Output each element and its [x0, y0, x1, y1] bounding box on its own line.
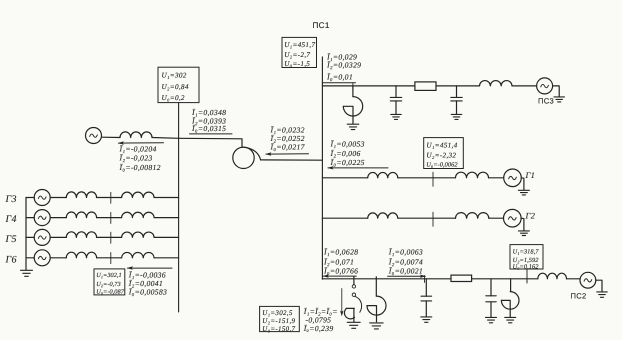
label I0=0,0315 — [191, 124, 226, 133]
svg-text:Ī₁=0,0628: Ī₁=0,0628 — [323, 248, 358, 257]
label I2=0,0041 — [128, 279, 163, 288]
label IA=0,239 — [303, 324, 334, 333]
reactor coil L12 — [456, 172, 489, 178]
wire PS3 to ground — [553, 86, 560, 97]
reactor coil L6a — [66, 252, 96, 258]
label G1 — [525, 170, 536, 180]
svg-text:ПС2: ПС2 — [571, 291, 587, 300]
label I1=I2=I0= — [303, 307, 338, 316]
svg-text:U₂=-2,7: U₂=-2,7 — [284, 51, 310, 59]
box U=302,5 voltage table — [260, 306, 300, 331]
text U0=0,2 — [162, 94, 185, 102]
junction tick on G1 feeder — [432, 172, 434, 186]
generator Г6 — [34, 250, 50, 266]
generator Г4 — [34, 210, 50, 226]
label I1=0,029 — [326, 52, 357, 61]
label I0=0,0225 — [330, 158, 365, 167]
text U1=318,7 — [513, 249, 540, 256]
reactor coil L4a — [66, 212, 96, 218]
generator G2 — [504, 209, 522, 227]
svg-text:U₀=0,162: U₀=0,162 — [513, 263, 540, 270]
reactor coil L11 — [368, 172, 398, 177]
wire Г5 feeder — [26, 236, 179, 238]
junction tick on Г5 feeder — [110, 232, 112, 243]
resistor R31 on PS3 feeder — [415, 82, 436, 91]
svg-text:U₁=302: U₁=302 — [162, 72, 187, 80]
wire G0 to left bus and to transformer — [102, 137, 243, 147]
capacitor C31 to ground — [390, 86, 401, 114]
reactor RA below switch — [344, 308, 354, 321]
reactor coil L31 on PS3 feeder — [480, 81, 512, 86]
text U0=-1,5 — [284, 60, 310, 68]
text U1=451,4 — [426, 141, 457, 149]
text U1=451,7 — [284, 41, 315, 49]
box U=318,7 voltage table — [510, 245, 543, 269]
arc-suppression reactor RC — [501, 279, 519, 317]
reactor coil L3b — [122, 192, 154, 197]
svg-text:Г3: Г3 — [5, 194, 17, 205]
svg-text:Ī₀=0,0766: Ī₀=0,0766 — [323, 266, 358, 275]
ground of G1 — [518, 190, 529, 195]
label I0=0,01 — [326, 72, 353, 81]
svg-text:Г6: Г6 — [5, 254, 17, 265]
svg-text:Ī₁=0,0053: Ī₁=0,0053 — [330, 140, 365, 149]
main bus PS1 (node) — [321, 57, 323, 279]
svg-text:Ī₂=-0,023: Ī₂=-0,023 — [119, 154, 153, 163]
junction tick on G2 feeder — [432, 212, 434, 226]
label Г6 — [5, 254, 17, 265]
svg-text:U₁=318,7: U₁=318,7 — [513, 249, 540, 256]
generator Г5 — [34, 229, 50, 245]
wire T1 to main bus — [261, 159, 323, 161]
svg-text:Ī₂=0,006: Ī₂=0,006 — [330, 149, 361, 158]
svg-text:U₁=451,7: U₁=451,7 — [284, 41, 315, 49]
svg-text:Īₐ=0,239: Īₐ=0,239 — [303, 324, 334, 333]
svg-text:Ī₂=0,0041: Ī₂=0,0041 — [128, 279, 163, 288]
label I2=0,0252 — [270, 134, 305, 143]
system source PS2 — [580, 272, 596, 288]
label Г4 — [5, 214, 17, 225]
junction tick on Г4 feeder — [110, 212, 112, 223]
svg-text:U₀=0,2: U₀=0,2 — [162, 94, 185, 102]
transformer T1 — [233, 147, 261, 168]
svg-text:U₀=-0,087: U₀=-0,087 — [96, 289, 125, 296]
text U0=-0,087 — [96, 289, 125, 296]
ground of PS3 reactor — [347, 124, 359, 129]
arrow under I0=0,01 — [323, 82, 356, 84]
label Г5 — [5, 234, 17, 245]
ground of C32 — [451, 114, 462, 119]
svg-text:U₀=-0,0062: U₀=-0,0062 — [426, 162, 458, 169]
wire PS2 feeder — [322, 278, 580, 280]
ground of RC — [505, 317, 516, 322]
label I2=0,0329 — [326, 61, 361, 70]
label I0=-0,00812 — [119, 163, 161, 172]
svg-text:Г5: Г5 — [5, 234, 17, 245]
label I2=0,006 — [330, 149, 361, 158]
text U2=-2,32 — [426, 152, 456, 160]
disconnector switch S1 (open) — [352, 277, 361, 312]
arrow above I1=-0,0036 — [127, 266, 172, 269]
svg-text:Ī₀=0,01: Ī₀=0,01 — [326, 72, 353, 81]
arc-suppression reactor RB — [367, 277, 386, 322]
svg-text:U₁=302,5: U₁=302,5 — [262, 309, 293, 317]
label I1=0,0053 — [330, 140, 365, 149]
wire Г6 feeder — [26, 257, 179, 259]
label I1=0,0063 — [388, 248, 423, 257]
svg-text:Ī₀=0,0315: Ī₀=0,0315 — [191, 124, 226, 133]
reactor coil L21 on PS2 feeder — [538, 273, 567, 279]
svg-text:Ī₁=0,0063: Ī₁=0,0063 — [388, 248, 423, 257]
label Г3 — [5, 194, 17, 205]
reactor coil L14 — [456, 213, 489, 219]
svg-text:U₂=-2,32: U₂=-2,32 — [426, 152, 456, 160]
label I1=0,0232 — [270, 126, 305, 135]
label PS1 — [313, 21, 330, 30]
text U2=-0,73 — [96, 281, 121, 288]
svg-text:Ī₂=0,071: Ī₂=0,071 — [323, 257, 354, 266]
ground of RB — [370, 323, 384, 329]
system source PS3 — [537, 78, 553, 94]
text U0=0,162 — [513, 263, 540, 270]
label I0=0,0217 — [270, 142, 306, 151]
label PS3 — [538, 96, 554, 105]
svg-text:Ī₀=-0,00812: Ī₀=-0,00812 — [119, 163, 161, 172]
arc-suppression reactor on PS3 feeder — [343, 86, 362, 124]
left bus (node) — [178, 103, 180, 312]
wire Г3 feeder — [26, 197, 179, 199]
junction tick on Г3 feeder — [110, 192, 112, 203]
capacitor C21 to ground — [421, 279, 432, 317]
text U0=-150,7 — [262, 325, 295, 333]
svg-text:U₁=302,1: U₁=302,1 — [96, 272, 122, 279]
current arrow on G0 feeder — [118, 141, 164, 144]
junction tick on PS3 feeder — [352, 83, 354, 90]
ground of G3-G6 neutral — [21, 270, 33, 276]
text U2=1,592 — [513, 257, 540, 264]
fault location arrow — [340, 289, 343, 317]
capacitor C32 to ground — [451, 86, 462, 114]
ground of G2 — [518, 231, 529, 236]
ground of RA — [347, 322, 360, 328]
text U1=302,5 — [262, 309, 293, 317]
current arrow on T1 output — [265, 152, 308, 155]
common neutral wire of G3-G6 — [25, 198, 27, 270]
label I2=0,0074 — [388, 257, 423, 266]
arrow under I0=0,0315 — [190, 133, 233, 135]
svg-text:Ī₀=0,0021: Ī₀=0,0021 — [388, 266, 423, 275]
generator G0 (unlabeled source, left) — [86, 128, 102, 144]
junction tick at C21 — [424, 276, 426, 283]
label I1=0,0348 — [191, 108, 226, 117]
svg-text:ПС1: ПС1 — [313, 21, 330, 30]
label I0=0,00583 — [128, 288, 167, 297]
text U2=-2,7 — [284, 51, 310, 59]
arrow under I0=0,0225 — [327, 166, 388, 169]
arrow under I0=0,0021 — [388, 275, 427, 278]
svg-text:Г4: Г4 — [5, 214, 17, 225]
text U2=0,84 — [162, 83, 189, 91]
label I1=0,0628 — [323, 248, 358, 257]
svg-text:U₁=451,4: U₁=451,4 — [426, 141, 457, 149]
svg-text:U₀=-150,7: U₀=-150,7 — [262, 325, 295, 333]
svg-text:Г1: Г1 — [525, 170, 536, 180]
box U=302,1 voltage table — [94, 269, 125, 295]
wire PS3 feeder — [322, 85, 536, 87]
resistor R21 on PS2 feeder — [451, 275, 472, 281]
box U=451,7 voltage table — [282, 37, 317, 67]
label I2=-0,023 — [119, 154, 153, 163]
svg-text:Ī₂=0,0074: Ī₂=0,0074 — [388, 257, 423, 266]
label I0=0,0021 — [388, 266, 423, 275]
wire G2 to ground — [521, 218, 524, 230]
text U0=-0,0062 — [426, 162, 458, 169]
reactor coil L5b — [122, 232, 154, 237]
reactor coil L3a — [66, 192, 96, 198]
reactor coil L5a — [66, 232, 96, 238]
label =-0,0795 — [306, 316, 332, 325]
arrow under I0=0,0766 — [323, 274, 357, 277]
svg-text:Г2: Г2 — [525, 210, 536, 220]
svg-text:U₂=-151,9: U₂=-151,9 — [262, 317, 295, 325]
box U=302 voltage table — [158, 67, 199, 102]
text U1=302 — [162, 72, 187, 80]
ground of PS3 — [554, 97, 565, 102]
generator G1 — [504, 169, 522, 187]
svg-text:Ī₁=-0,0204: Ī₁=-0,0204 — [119, 144, 157, 153]
reactor coil L4b — [122, 212, 154, 217]
ground of C21 — [421, 317, 432, 322]
reactor coil L6b — [122, 252, 154, 257]
svg-text:Ī₀=0,0225: Ī₀=0,0225 — [330, 158, 365, 167]
wire box to PS2 feeder — [526, 269, 528, 283]
text U2=-151,9 — [262, 317, 295, 325]
ground of C22 — [486, 317, 497, 322]
reactor coil L13 — [368, 213, 398, 218]
wire Г4 feeder — [26, 217, 179, 219]
svg-text:U₂=-0,73: U₂=-0,73 — [96, 281, 121, 288]
label I1=-0,0204 — [119, 144, 157, 153]
wire G1 to ground — [521, 178, 524, 190]
label I2=0,071 — [323, 257, 354, 266]
svg-text:U₀=-1,5: U₀=-1,5 — [284, 60, 310, 68]
wire G1 feeder — [322, 177, 503, 179]
capacitor C22 to ground — [486, 279, 496, 317]
junction tick on Г6 feeder — [110, 253, 112, 264]
label I2=0,0393 — [191, 116, 226, 125]
svg-text:Ī₂=0,0329: Ī₂=0,0329 — [326, 61, 361, 70]
label PS2 — [571, 291, 587, 300]
svg-text:Ī₀=0,0217: Ī₀=0,0217 — [270, 142, 306, 151]
wire PS2 to ground — [596, 280, 602, 291]
text U1=302,1 — [96, 272, 122, 279]
svg-text:ПС3: ПС3 — [538, 96, 554, 105]
ground of PS2 — [597, 292, 608, 297]
box U=451,4 voltage table — [424, 138, 464, 169]
label G2 — [525, 210, 536, 220]
svg-text:U₂=0,84: U₂=0,84 — [162, 83, 189, 91]
wire G2 feeder — [322, 217, 503, 219]
label I1=-0,0036 — [128, 270, 166, 279]
svg-text:Ī₀=0,00583: Ī₀=0,00583 — [128, 288, 167, 297]
ground of C31 — [391, 114, 402, 119]
reactor coil L0 on G0 feeder — [120, 132, 152, 138]
generator Г3 — [34, 190, 50, 206]
label I0=0,0766 — [323, 266, 358, 275]
